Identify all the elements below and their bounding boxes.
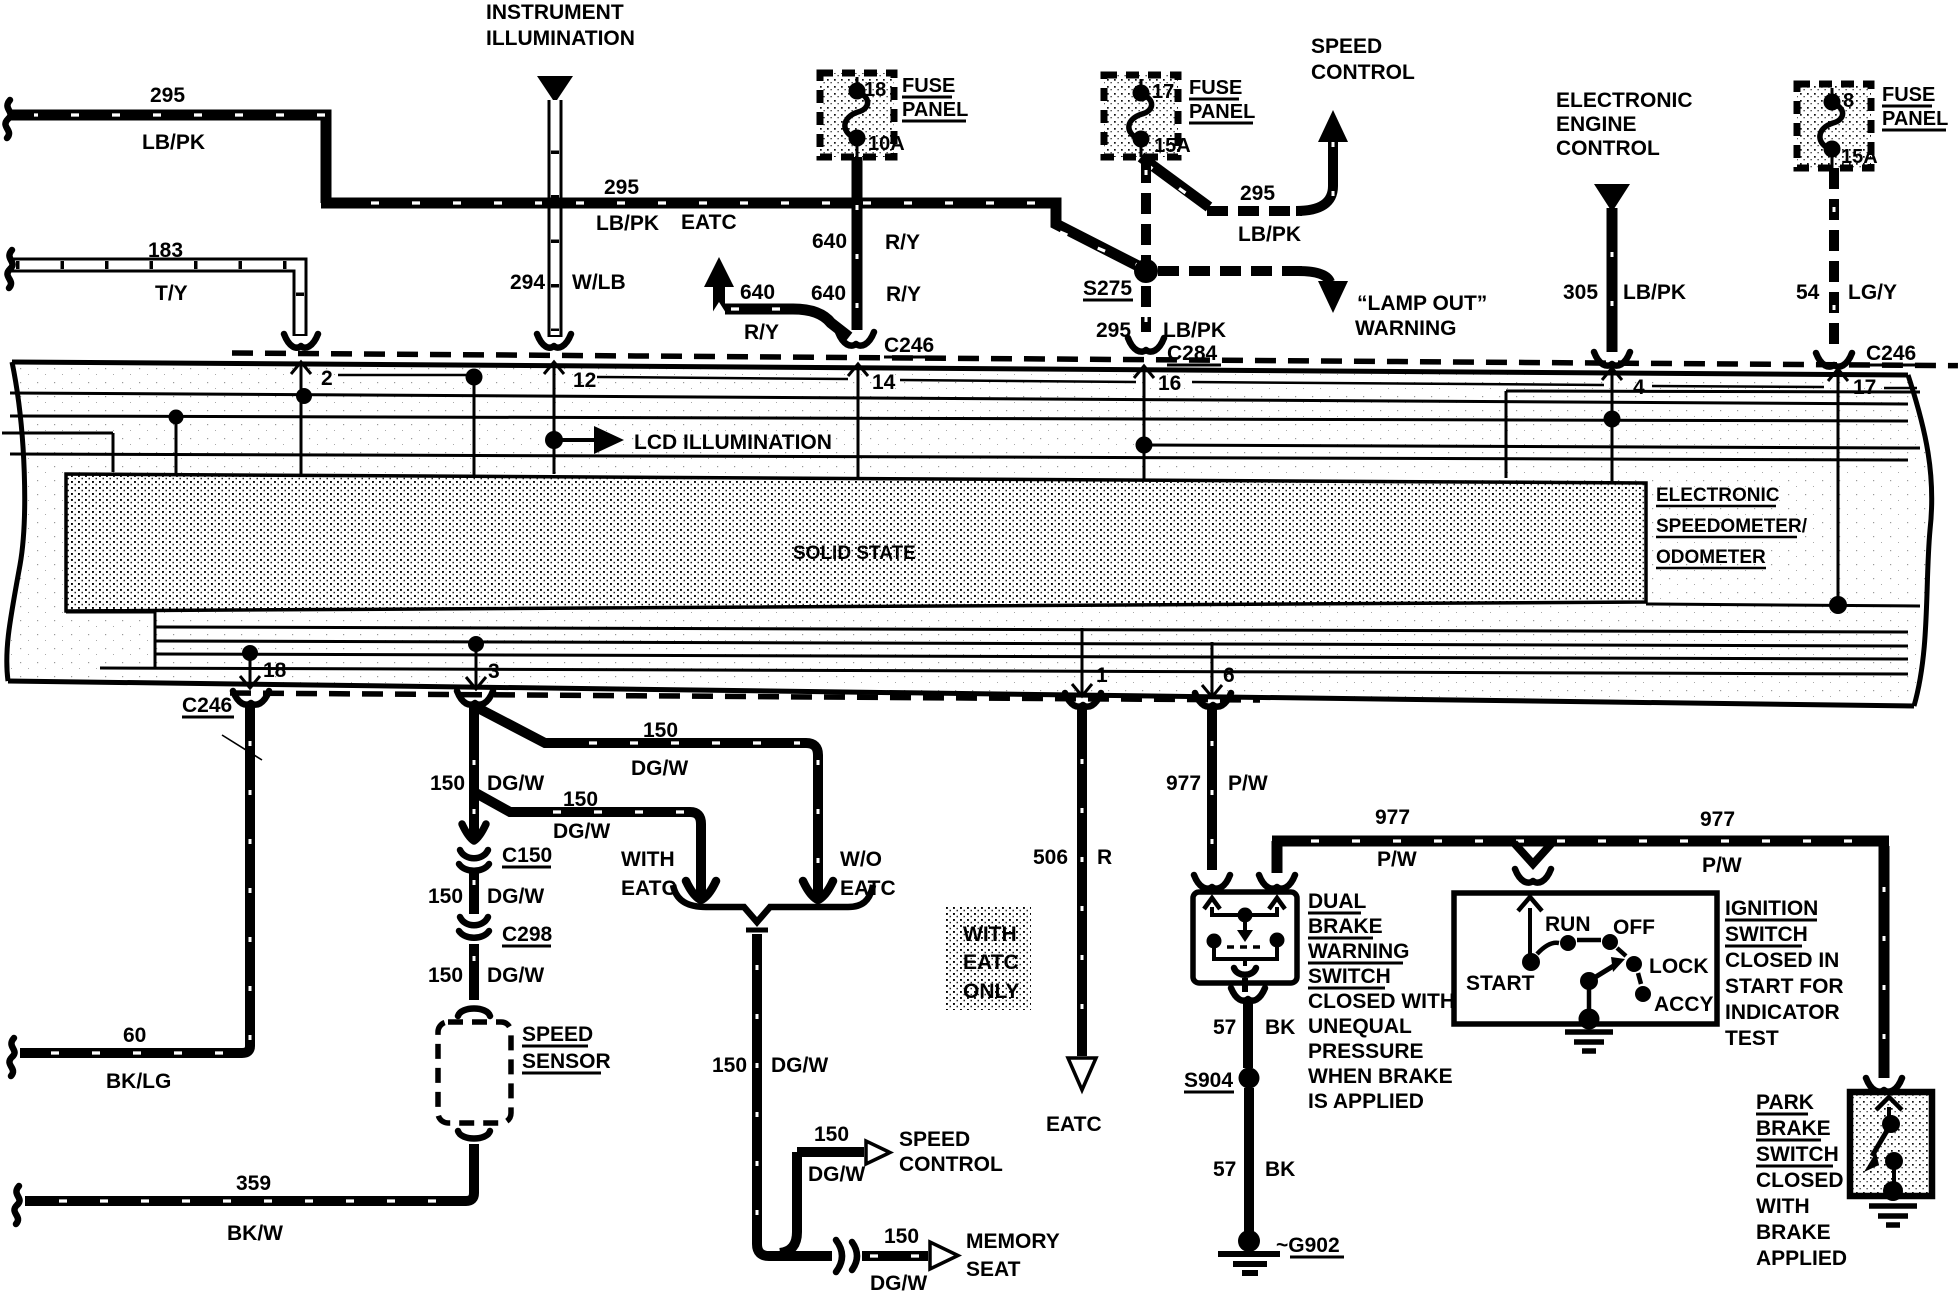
memory seat open arrow — [930, 1242, 958, 1269]
cup into park brake switch — [1866, 1078, 1902, 1092]
svg-text:C150: C150 — [502, 844, 552, 867]
svg-text:P/W: P/W — [1377, 848, 1417, 871]
step line right of solid state box — [1646, 604, 1920, 606]
LCD illumination node dot — [545, 431, 563, 449]
svg-text:SWITCH: SWITCH — [1308, 965, 1391, 988]
svg-text:305: 305 — [1563, 281, 1598, 304]
svg-text:BRAKE: BRAKE — [1308, 915, 1383, 938]
svg-text:MEMORY: MEMORY — [966, 1230, 1060, 1253]
WITH EATC ONLY box — [946, 906, 1031, 1010]
spur to speed control — [780, 1152, 864, 1253]
svg-text:WITH: WITH — [1756, 1195, 1810, 1218]
pin 4 lead — [1611, 368, 1614, 482]
speed sensor exit cup — [458, 1131, 490, 1139]
wire dashed from S275 to lamp out warning — [1158, 266, 1302, 276]
svg-text:ENGINE: ENGINE — [1556, 113, 1637, 136]
svg-text:IGNITION: IGNITION — [1725, 897, 1818, 920]
svg-text:295: 295 — [604, 176, 639, 199]
scan scratch line — [222, 735, 262, 760]
cup into ignition switch — [1515, 869, 1551, 883]
cluster internal line 5 — [10, 454, 1908, 460]
svg-text:LG/Y: LG/Y — [1848, 281, 1897, 304]
svg-text:P/W: P/W — [1228, 772, 1268, 795]
svg-text:LOCK: LOCK — [1649, 955, 1709, 978]
svg-text:SWITCH: SWITCH — [1756, 1143, 1839, 1166]
speed sensor entry cup — [458, 1009, 490, 1017]
svg-text:2: 2 — [321, 367, 333, 390]
svg-text:PANEL: PANEL — [1189, 101, 1255, 123]
wire 640 R/Y from fuse 18 down through bus to C246 — [852, 157, 863, 330]
ignition switch ground — [1587, 988, 1592, 1014]
svg-text:17: 17 — [1853, 376, 1876, 399]
svg-text:3: 3 — [488, 660, 500, 683]
W/O EATC arrow — [803, 881, 833, 900]
svg-text:WITH: WITH — [621, 848, 675, 871]
wire 54 LG/Y dashed — [1829, 168, 1839, 352]
WITH EATC arrow — [686, 881, 716, 900]
svg-text:C298: C298 — [502, 923, 553, 946]
svg-text:DG/W: DG/W — [487, 964, 544, 987]
svg-text:APPLIED: APPLIED — [1756, 1247, 1847, 1270]
connector C246 cup (pin 3, below) — [457, 691, 493, 705]
svg-text:150: 150 — [428, 885, 463, 908]
svg-text:LB/PK: LB/PK — [142, 131, 205, 154]
SOLID STATE box — [66, 474, 1646, 611]
svg-text:SPEED: SPEED — [522, 1023, 593, 1046]
svg-text:150: 150 — [563, 788, 598, 811]
svg-text:“LAMP OUT”: “LAMP OUT” — [1357, 292, 1487, 315]
svg-text:RUN: RUN — [1545, 913, 1591, 936]
svg-text:PRESSURE: PRESSURE — [1308, 1040, 1424, 1063]
wire 60 BK/LG — [20, 705, 250, 1053]
svg-text:640: 640 — [812, 230, 847, 253]
connector cup above pin 12 — [537, 334, 571, 348]
svg-text:150: 150 — [643, 719, 678, 742]
svg-text:DG/W: DG/W — [487, 885, 544, 908]
svg-text:1: 1 — [1096, 664, 1108, 687]
svg-text:DG/W: DG/W — [771, 1054, 828, 1077]
wire (bus over 294 crossing) — [542, 198, 572, 209]
svg-text:LB/PK: LB/PK — [596, 212, 659, 235]
pin 14 lead — [857, 364, 860, 477]
svg-text:~G902: ~G902 — [1276, 1234, 1340, 1257]
svg-text:977: 977 — [1700, 808, 1735, 831]
svg-text:C246: C246 — [1866, 342, 1916, 365]
cup below dual brake switch — [1231, 988, 1265, 1001]
svg-text:10A: 10A — [868, 133, 905, 155]
svg-text:CONTROL: CONTROL — [1311, 61, 1415, 84]
svg-text:ACCY: ACCY — [1654, 993, 1714, 1016]
lamp out warning arrow — [1318, 281, 1348, 313]
wire 295 LB/PK dashed to speed control — [1207, 206, 1302, 216]
svg-text:640: 640 — [740, 281, 775, 304]
svg-text:CLOSED IN: CLOSED IN — [1725, 949, 1839, 972]
notch line (right top) — [1506, 391, 1920, 478]
pin 17 lead — [1837, 369, 1840, 604]
fuse panel 2 (fuse 17, 15A) box — [1104, 75, 1178, 157]
svg-text:SOLID STATE: SOLID STATE — [793, 543, 916, 564]
branch wire 150 DG/W to W/O EATC — [476, 707, 818, 895]
SPEED SENSOR box (dashed) — [438, 1022, 511, 1123]
connector C284 cup (pin 16) — [1128, 338, 1164, 352]
fuse panel 1 (fuse 18, 10A) box — [820, 73, 894, 157]
svg-text:IS APPLIED: IS APPLIED — [1308, 1090, 1424, 1113]
svg-text:183: 183 — [148, 239, 183, 262]
wire to memory seat — [862, 1251, 928, 1261]
connector C246 cup (pin 4) — [1594, 352, 1630, 366]
connector line C246/C284 (top, dashed) — [232, 353, 1958, 366]
svg-text:DG/W: DG/W — [487, 772, 544, 795]
svg-text:EATC: EATC — [621, 877, 677, 900]
pin 12 lead — [553, 362, 556, 474]
EATC open arrow (down) — [1068, 1058, 1096, 1090]
wire 295 LB/PK bus to S275 — [321, 203, 1146, 270]
node dot (pin 17) — [1829, 596, 1847, 614]
svg-text:R/Y: R/Y — [885, 231, 920, 254]
DUAL BRAKE WARNING SWITCH box — [1193, 892, 1297, 983]
svg-text:S275: S275 — [1083, 277, 1132, 300]
svg-text:CLOSED: CLOSED — [1756, 1169, 1844, 1192]
svg-text:BK/W: BK/W — [227, 1222, 283, 1245]
connector end curl (wire 183) — [7, 250, 12, 288]
svg-text:17: 17 — [1152, 81, 1174, 103]
svg-text:12: 12 — [573, 369, 596, 392]
svg-text:C246: C246 — [182, 694, 232, 717]
ignition switch internals — [1518, 897, 1542, 911]
svg-text:WHEN BRAKE: WHEN BRAKE — [1308, 1065, 1453, 1088]
svg-text:18: 18 — [263, 659, 287, 682]
speed control arrow — [1318, 110, 1348, 142]
cluster bottom internal lines — [100, 627, 1908, 674]
node dot (pin 16) — [1136, 437, 1153, 454]
wire 295 LB/PK (top left) — [8, 115, 326, 203]
node dot (pin 4) — [1604, 411, 1621, 428]
fuse 8 element — [1831, 88, 1834, 168]
wire 305 LB/PK — [1607, 208, 1618, 352]
splice S275 — [1134, 259, 1158, 283]
connector end curl (wire 60) — [9, 1038, 14, 1076]
park brake switch ground — [1869, 1206, 1917, 1225]
electronic engine control feed triangle — [1594, 184, 1630, 212]
svg-text:EATC: EATC — [1046, 1113, 1102, 1136]
svg-text:8: 8 — [1843, 90, 1854, 112]
svg-text:T/Y: T/Y — [155, 282, 188, 305]
svg-text:BK: BK — [1265, 1016, 1295, 1039]
connector C150 — [459, 850, 489, 871]
wire 150 DG/W (C298 to speed sensor) — [469, 944, 479, 1000]
LCD illumination arrow — [554, 438, 595, 442]
svg-text:CONTROL: CONTROL — [899, 1153, 1003, 1176]
svg-text:R/Y: R/Y — [886, 283, 921, 306]
svg-text:295: 295 — [150, 84, 185, 107]
svg-text:W/O: W/O — [840, 848, 882, 871]
wire 57 BK (upper) — [1243, 1000, 1253, 1068]
instrument cluster body (outline + speckle fill) — [7, 362, 1932, 706]
branch wire 150 DG/W to WITH EATC — [474, 792, 701, 895]
svg-text:UNEQUAL: UNEQUAL — [1308, 1015, 1412, 1038]
svg-text:WARNING: WARNING — [1355, 317, 1457, 340]
svg-text:SWITCH: SWITCH — [1725, 923, 1808, 946]
svg-text:LB/PK: LB/PK — [1623, 281, 1686, 304]
instrument illumination feed triangle — [537, 76, 573, 103]
connector end curl (wire 295) — [5, 100, 10, 138]
svg-text:SPEED: SPEED — [1311, 35, 1382, 58]
svg-text:14: 14 — [872, 371, 896, 394]
svg-text:DG/W: DG/W — [553, 820, 610, 843]
svg-text:54: 54 — [1796, 281, 1820, 304]
wire from dot 176 into solid state — [175, 417, 178, 474]
svg-text:6: 6 — [1223, 664, 1235, 687]
svg-text:57: 57 — [1213, 1158, 1236, 1181]
pin 2 lead — [300, 362, 303, 474]
svg-text:ILLUMINATION: ILLUMINATION — [486, 27, 635, 50]
junction dot to solid state (x=474) — [466, 369, 483, 386]
IGNITION SWITCH box — [1454, 893, 1717, 1024]
svg-text:PANEL: PANEL — [902, 99, 968, 121]
svg-text:FUSE: FUSE — [1189, 77, 1242, 99]
wire 294 W/LB (white hatched, vertical) — [548, 100, 563, 337]
svg-text:FUSE: FUSE — [1882, 84, 1935, 106]
pin-number line segments — [338, 375, 1917, 388]
svg-text:18: 18 — [864, 79, 886, 101]
dual brake switch internals — [1204, 898, 1220, 909]
svg-text:PARK: PARK — [1756, 1091, 1814, 1114]
merge bracket — [673, 885, 873, 922]
splice S904 — [1239, 1068, 1260, 1089]
svg-text:640: 640 — [811, 282, 846, 305]
cluster internal line 2 — [10, 393, 1908, 404]
connector cup above pin 2 — [284, 334, 318, 348]
svg-text:START FOR: START FOR — [1725, 975, 1844, 998]
C150 arrowhead into connector — [462, 824, 486, 841]
svg-text:57: 57 — [1213, 1016, 1236, 1039]
cup into dual brake switch (right) — [1259, 875, 1295, 889]
svg-text:INSTRUMENT: INSTRUMENT — [486, 1, 624, 24]
svg-text:SEAT: SEAT — [966, 1258, 1021, 1281]
wire 183 T/Y (white hatched) — [10, 265, 300, 336]
connector C246 cup (pin 17) — [1816, 353, 1852, 367]
node dot (pin2 line junction) — [296, 388, 312, 404]
svg-text:BRAKE: BRAKE — [1756, 1221, 1831, 1244]
wire from dot into solid state — [473, 377, 476, 476]
svg-text:15A: 15A — [1154, 135, 1191, 157]
svg-text:LCD ILLUMINATION: LCD ILLUMINATION — [634, 431, 832, 454]
wire 150 DG/W (merged, down to memory seat) — [757, 934, 832, 1256]
svg-text:DUAL: DUAL — [1308, 890, 1366, 913]
svg-text:4: 4 — [1633, 376, 1645, 399]
svg-text:PANEL: PANEL — [1882, 108, 1948, 130]
svg-text:C246: C246 — [884, 334, 934, 357]
svg-text:150: 150 — [884, 1225, 919, 1248]
svg-text:DG/W: DG/W — [808, 1163, 865, 1186]
svg-text:DG/W: DG/W — [870, 1272, 927, 1295]
wire 977 P/W horizontal — [1272, 841, 1889, 1078]
connector line C246 (bottom, dashed) — [230, 693, 1260, 700]
svg-text:S904: S904 — [1184, 1069, 1233, 1092]
cluster internal line 4 (right half) — [1144, 445, 1920, 448]
cluster internal line 3 — [10, 416, 1908, 421]
svg-text:BRAKE: BRAKE — [1756, 1117, 1831, 1140]
svg-text:ONLY: ONLY — [963, 980, 1019, 1003]
pin 3 lead — [468, 636, 484, 652]
wire 57 BK (lower) — [1244, 1088, 1254, 1232]
EATC branch up-arrow (640 R/Y) — [713, 287, 725, 313]
svg-text:ELECTRONIC: ELECTRONIC — [1556, 89, 1693, 112]
in-line connector on memory seat wire — [836, 1240, 857, 1272]
svg-text:LB/PK: LB/PK — [1163, 319, 1226, 342]
PARK BRAKE SWITCH box — [1850, 1092, 1932, 1196]
svg-text:BK: BK — [1265, 1158, 1295, 1181]
svg-text:506: 506 — [1033, 846, 1068, 869]
svg-text:DG/W: DG/W — [631, 757, 688, 780]
svg-text:ELECTRONIC: ELECTRONIC — [1656, 485, 1780, 506]
svg-text:WITH: WITH — [963, 923, 1017, 946]
wire 150 DG/W (C150 to C298) — [469, 868, 479, 914]
connector C246 cup (pin 18, below) — [233, 691, 269, 705]
svg-text:295: 295 — [1240, 182, 1275, 205]
svg-text:CLOSED WITH: CLOSED WITH — [1308, 990, 1455, 1013]
svg-text:15A: 15A — [1841, 146, 1878, 168]
pin 6 lead — [1211, 642, 1214, 695]
wire 295 dashed from fuse 17 down to C284 (S275 leg) — [1141, 162, 1151, 332]
svg-text:R/Y: R/Y — [744, 321, 779, 344]
svg-text:150: 150 — [712, 1054, 747, 1077]
svg-text:EATC: EATC — [681, 211, 737, 234]
connector C246 cup (pin 1, below) — [1065, 693, 1101, 707]
svg-text:SPEEDOMETER/: SPEEDOMETER/ — [1656, 516, 1808, 537]
connector C298 — [459, 917, 489, 938]
svg-text:INDICATOR: INDICATOR — [1725, 1001, 1840, 1024]
svg-text:CONTROL: CONTROL — [1556, 137, 1660, 160]
svg-text:150: 150 — [428, 964, 463, 987]
svg-text:16: 16 — [1158, 372, 1181, 395]
svg-text:FUSE: FUSE — [902, 75, 955, 97]
junction dot x=176 — [169, 410, 184, 425]
pin 1 lead — [1081, 628, 1084, 694]
svg-text:SPEED: SPEED — [899, 1128, 970, 1151]
pin 16 lead — [1143, 366, 1146, 479]
connector C246 cup (pin 14) — [838, 332, 874, 346]
Y tap to ignition switch — [1514, 843, 1552, 864]
svg-text:R: R — [1097, 846, 1112, 869]
svg-text:60: 60 — [123, 1024, 146, 1047]
connector end curl (wire 359) — [14, 1186, 19, 1224]
svg-text:150: 150 — [430, 772, 465, 795]
wire 506 R — [1077, 707, 1087, 1056]
fuse 17 element — [1140, 79, 1143, 157]
speed control open arrow — [866, 1141, 890, 1164]
connector C246 cup (pin 6, below) — [1195, 693, 1231, 707]
svg-text:BK/LG: BK/LG — [106, 1070, 171, 1093]
cup into dual brake switch (left) — [1194, 875, 1230, 889]
svg-text:977: 977 — [1375, 806, 1410, 829]
wire 359 BK/W — [25, 1144, 474, 1201]
fuse 18 element — [856, 77, 859, 158]
left inner step — [2, 433, 155, 668]
svg-text:START: START — [1466, 972, 1535, 995]
svg-text:P/W: P/W — [1702, 854, 1742, 877]
fuse panel 3 (fuse 8, 15A) box — [1797, 84, 1871, 168]
park brake switch internals — [1876, 1097, 1902, 1110]
ground G902 — [1238, 1230, 1260, 1252]
wire 977 P/W (pin 6 down) — [1207, 707, 1217, 870]
pin 18 lead — [242, 645, 258, 661]
svg-text:977: 977 — [1166, 772, 1201, 795]
svg-text:OFF: OFF — [1613, 916, 1655, 939]
svg-text:EATC: EATC — [963, 951, 1019, 974]
svg-text:W/LB: W/LB — [572, 271, 626, 294]
svg-text:294: 294 — [510, 271, 545, 294]
wire 295 diagonal from fuse 17 — [1141, 157, 1209, 207]
svg-text:150: 150 — [814, 1123, 849, 1146]
wire 640 R/Y branch into C246 — [725, 309, 849, 337]
svg-text:LB/PK: LB/PK — [1238, 223, 1301, 246]
svg-text:WARNING: WARNING — [1308, 940, 1410, 963]
svg-text:SENSOR: SENSOR — [522, 1050, 611, 1073]
svg-text:ODOMETER: ODOMETER — [1656, 547, 1766, 568]
svg-text:359: 359 — [236, 1172, 271, 1195]
wire 150 DG/W (pin3 main down) — [469, 705, 479, 838]
svg-text:TEST: TEST — [1725, 1027, 1779, 1050]
